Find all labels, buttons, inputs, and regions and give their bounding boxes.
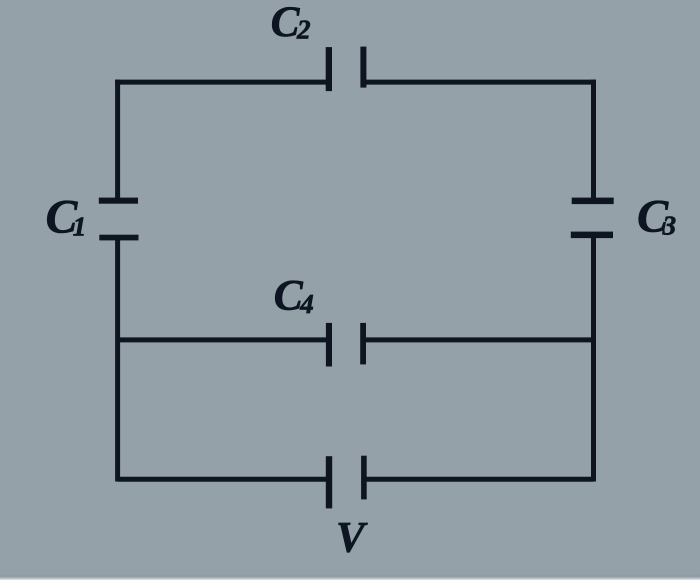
wire bottom-left segment xyxy=(118,477,329,482)
wire middle-left segment xyxy=(118,337,329,342)
wire right vertical upper xyxy=(591,80,596,201)
wire top-left segment xyxy=(115,80,328,85)
wire left vertical upper xyxy=(115,80,120,201)
bottom edge strip xyxy=(0,574,700,580)
capacitor C1 plates xyxy=(99,198,139,241)
capacitor C2 plates xyxy=(326,47,367,92)
capacitor C3 plates xyxy=(571,198,614,239)
svg-text:V: V xyxy=(336,515,368,562)
wire top-right segment xyxy=(364,80,597,85)
capacitor C4 plates xyxy=(326,323,366,367)
wire right vertical lower xyxy=(591,235,596,482)
wire middle-right segment xyxy=(362,337,594,342)
wire left vertical lower xyxy=(115,238,120,482)
wire bottom-right segment xyxy=(363,477,594,482)
voltage source V plates xyxy=(326,456,367,509)
